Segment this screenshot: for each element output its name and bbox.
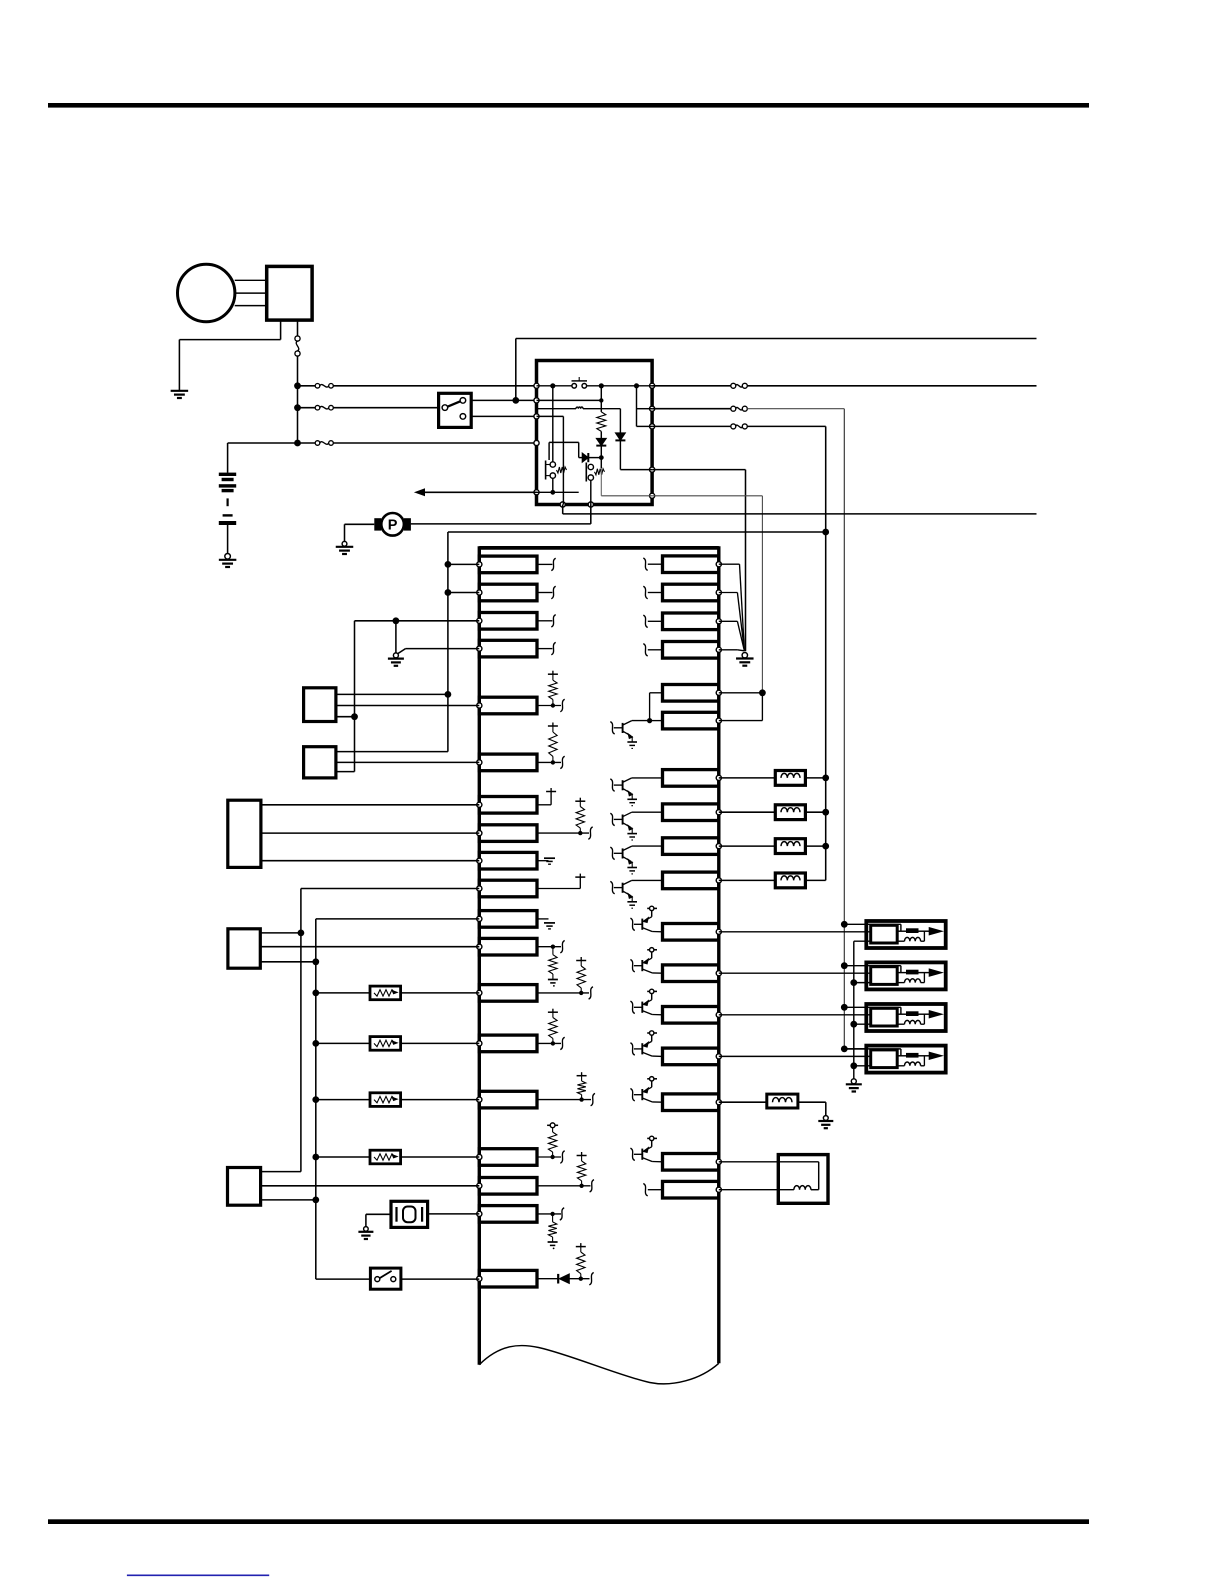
svg-text:P: P bbox=[388, 518, 398, 534]
